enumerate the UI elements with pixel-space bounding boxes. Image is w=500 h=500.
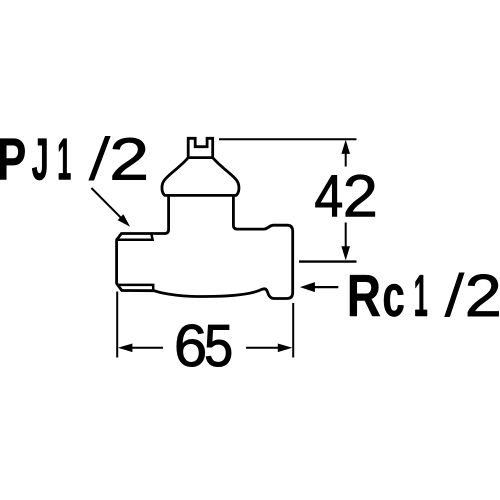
extension line right (65 dim) <box>292 303 294 358</box>
65 dimension line right segment with right arrow <box>246 344 292 353</box>
valve body outline <box>117 195 293 298</box>
thread root line bottom <box>117 285 153 291</box>
label PJ1/2 <box>0 136 146 180</box>
extension line left (65 dim) <box>116 292 118 358</box>
extension line from stem top (42 dim) <box>219 138 357 140</box>
dimension text 42 <box>316 175 375 217</box>
leader arrow to PJ thread end <box>91 188 130 227</box>
valve bonnet dome <box>162 158 239 196</box>
extension line at outlet centerline (42 dim) <box>299 260 357 262</box>
leader arrow to Rc outlet <box>300 282 338 292</box>
65 dimension line left segment with left arrow <box>118 344 163 353</box>
thread root line top <box>117 234 153 240</box>
valve stem with screw slot <box>188 138 213 157</box>
42 dimension line lower segment with down arrow <box>341 223 350 261</box>
42 dimension line upper segment with up arrow <box>341 140 350 167</box>
label Rc1/2 <box>350 273 499 317</box>
dimension text 65 <box>177 325 231 367</box>
